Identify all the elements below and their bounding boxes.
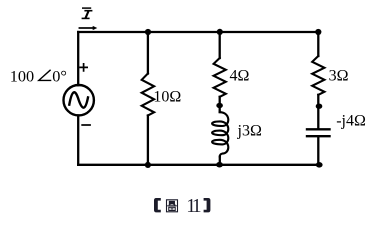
resistor 3ohm xyxy=(312,56,324,95)
capacitor -j4ohm plate bottom xyxy=(307,135,330,137)
svg-text:3Ω: 3Ω xyxy=(329,68,349,85)
node H bottom right xyxy=(316,162,323,168)
wire left branch lower xyxy=(77,115,79,164)
wire 3ohm branch upper xyxy=(317,32,319,56)
node A top 10ohm xyxy=(145,29,151,35)
svg-text:0°: 0° xyxy=(52,67,67,86)
svg-text:j3Ω: j3Ω xyxy=(237,123,262,140)
wire capacitor branch lower xyxy=(317,137,319,164)
svg-text:-j4Ω: -j4Ω xyxy=(336,112,366,129)
svg-text:10Ω: 10Ω xyxy=(153,89,181,106)
wire left branch upper xyxy=(77,32,79,85)
wire 10ohm branch lower xyxy=(147,116,149,165)
capacitor -j4ohm plate top xyxy=(307,128,330,130)
svg-text:11: 11 xyxy=(186,196,201,217)
minus sign xyxy=(81,124,91,126)
wire 4ohm branch upper xyxy=(219,32,221,58)
wire 3ohm to capacitor xyxy=(317,95,319,128)
node F bottom 10ohm xyxy=(145,162,151,168)
current arrow head xyxy=(93,26,98,30)
node E mid 3ohm-cap junction xyxy=(316,104,323,109)
node C top right xyxy=(315,29,321,35)
node D mid 4ohm-j3ohm junction xyxy=(216,103,223,108)
source V1 circle xyxy=(63,85,93,115)
svg-text:4Ω: 4Ω xyxy=(230,68,250,85)
wire bottom bus xyxy=(78,164,319,166)
wire j3ohm branch lower xyxy=(219,157,221,165)
inductor j3ohm xyxy=(212,112,228,156)
wire 4ohm to j3ohm xyxy=(219,97,221,112)
wire top bus xyxy=(78,31,318,33)
caption bracket left xyxy=(154,198,161,212)
wire 10ohm branch upper xyxy=(147,32,149,74)
resistor 10ohm xyxy=(142,74,154,116)
current arrow I xyxy=(79,27,93,29)
node G bottom j3ohm xyxy=(216,162,223,168)
label current Ibar xyxy=(82,11,93,19)
node B top 4ohm xyxy=(217,29,223,35)
source V1 sine xyxy=(69,92,88,107)
angle symbol xyxy=(39,70,52,81)
current Ibar overbar xyxy=(82,7,91,9)
caption bracket right xyxy=(204,198,211,212)
resistor 4ohm xyxy=(214,58,226,97)
plus sign xyxy=(79,63,88,72)
svg-text:100: 100 xyxy=(10,67,34,86)
caption CJK tu character xyxy=(167,200,178,212)
